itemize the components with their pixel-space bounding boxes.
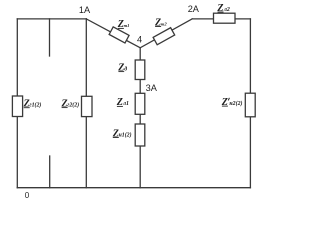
- svg-text:0: 0: [25, 191, 30, 200]
- resistor Zд: [135, 60, 145, 80]
- wire top bus node 1A: [17, 18, 86, 20]
- label Z'н2(2): [221, 97, 243, 108]
- resistor Zт2: [153, 28, 175, 45]
- wire right branch: [249, 19, 251, 188]
- svg-text:л1: л1: [122, 101, 129, 107]
- resistor Z'н2(2): [245, 93, 255, 117]
- wire open stub from node 0: [49, 156, 51, 188]
- resistor Zл1: [135, 93, 145, 114]
- label Zн1(2): [112, 128, 132, 139]
- wire middle branch node 4 to node 0: [139, 48, 141, 188]
- svg-text:л2: л2: [223, 7, 230, 13]
- svg-text:2A: 2A: [188, 4, 200, 14]
- resistor Zг1(2): [12, 96, 22, 117]
- wire diagonal node 1A to node 4: [86, 19, 140, 48]
- label Zг2(2): [61, 98, 80, 109]
- wire left branch Zг1(2): [16, 19, 18, 188]
- svg-text:т2: т2: [161, 21, 168, 26]
- label Zл1: [116, 97, 129, 108]
- svg-text:1A: 1A: [79, 5, 91, 15]
- wire bottom bus node 0: [17, 187, 250, 189]
- resistor Zл2: [214, 13, 236, 23]
- svg-text:н2(2): н2(2): [229, 100, 242, 107]
- wire node 2A horizontal: [192, 18, 250, 20]
- svg-text:3A: 3A: [146, 83, 158, 93]
- label Zл2: [216, 3, 230, 14]
- resistor Zг2(2): [82, 96, 93, 116]
- label Zг1(2): [23, 99, 42, 110]
- svg-text:д: д: [124, 65, 127, 72]
- label Zт1: [117, 19, 130, 30]
- svg-text:г1(2): г1(2): [29, 102, 41, 109]
- resistor Zт1: [109, 27, 129, 43]
- wire branch Zг2(2): [85, 19, 87, 188]
- svg-text:т1: т1: [124, 23, 130, 28]
- label Zд: [117, 62, 127, 73]
- svg-text:4: 4: [137, 34, 142, 44]
- wire open stub from node 1A: [49, 19, 51, 56]
- label Zт2: [154, 17, 167, 28]
- svg-text:н1(2): н1(2): [119, 131, 132, 138]
- resistor Zн1(2): [135, 124, 145, 146]
- svg-text:г2(2): г2(2): [67, 101, 79, 108]
- wire diagonal node 4 to node 2A: [140, 19, 192, 48]
